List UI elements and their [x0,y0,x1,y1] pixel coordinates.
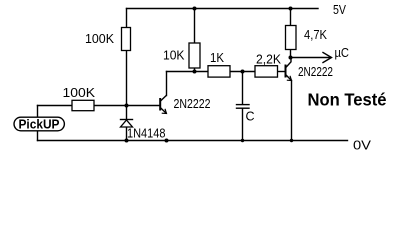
svg-text:10K: 10K [163,49,185,63]
svg-text:µC: µC [335,46,350,60]
svg-text:0V: 0V [353,139,372,153]
svg-text:C: C [246,110,255,124]
svg-text:4,7K: 4,7K [304,28,328,42]
svg-text:2,2K: 2,2K [256,53,282,67]
svg-text:Non Testé: Non Testé [308,89,387,109]
svg-text:5V: 5V [333,3,347,17]
svg-text:2N2222: 2N2222 [298,65,333,79]
svg-text:1K: 1K [210,51,225,65]
svg-text:PickUP: PickUP [19,117,60,132]
svg-text:100K: 100K [63,86,96,100]
svg-text:1N4148: 1N4148 [127,127,166,141]
svg-text:2N2222: 2N2222 [174,97,211,111]
svg-text:100K: 100K [85,32,115,46]
